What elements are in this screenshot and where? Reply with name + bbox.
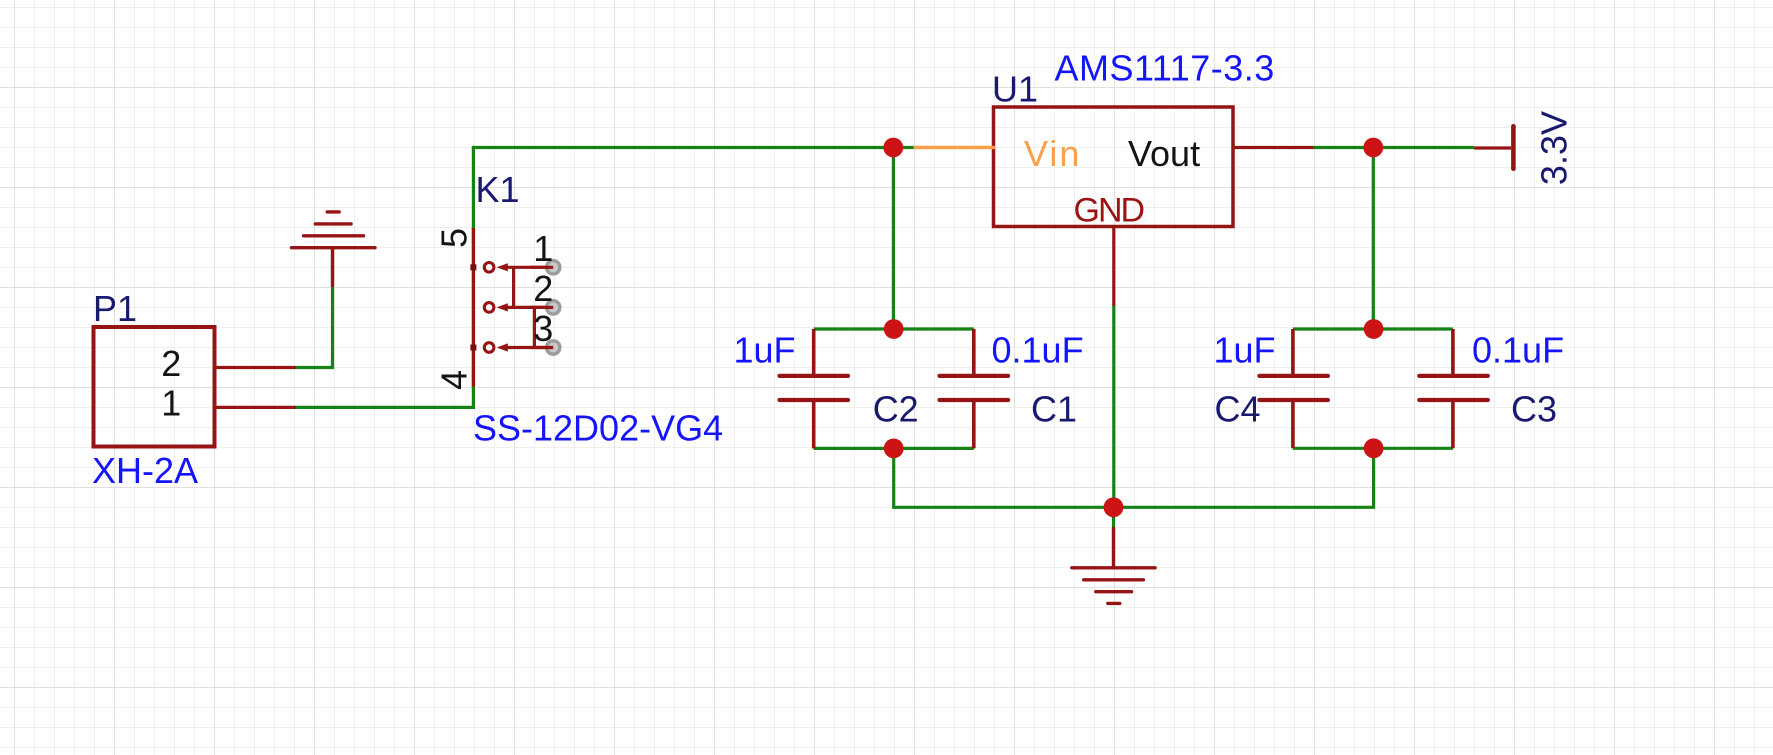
svg-text:0.1uF: 0.1uF (1472, 329, 1564, 370)
junction B (3.3V net) (1363, 138, 1383, 158)
svg-text:C3: C3 (1511, 389, 1557, 430)
svg-text:K1: K1 (476, 169, 520, 210)
capacitor C2 plates (780, 374, 849, 378)
K1 contact row 3 (484, 343, 494, 353)
K1 link segment rows 1-2 (512, 267, 515, 307)
wire: net VIN main horizontal from K1 to U1 junction (473, 146, 916, 149)
regulator U1 body (994, 107, 1234, 227)
svg-text:2: 2 (533, 268, 553, 309)
P1 pin 2 stub (214, 366, 295, 369)
capacitor C2 top lead (812, 329, 816, 375)
U1 pin GND stub (1112, 227, 1115, 305)
connector P1 body (94, 327, 215, 447)
wire: ground rail to C4/C3 bottom (1114, 448, 1374, 507)
K1 pad 1 (530, 261, 560, 274)
U1 pin Vout stub (1233, 146, 1312, 149)
svg-text:1uF: 1uF (1214, 329, 1276, 370)
svg-text:1: 1 (161, 383, 181, 424)
wire: junction B down to C4/C3 top rail (1372, 148, 1375, 330)
K1 contact row 1: arrow line (484, 263, 553, 353)
capacitor C3 top lead (1451, 329, 1455, 375)
capacitor C1 bottom lead (972, 402, 976, 449)
K1 pin4 connection nub (470, 345, 476, 351)
svg-text:5: 5 (434, 228, 475, 248)
svg-text:AMS1117-3.3: AMS1117-3.3 (1055, 48, 1275, 89)
K1 pin5 connection nub (470, 264, 476, 270)
svg-text:1: 1 (533, 228, 553, 269)
wire: K1 top vertical green segment (472, 148, 475, 229)
wire: U1 GND pin to bottom rail green part (1112, 305, 1115, 508)
svg-text:Vin: Vin (1024, 133, 1081, 174)
switch K1 common rail (pins 5-4 vertical) (472, 228, 475, 387)
svg-text:C2: C2 (873, 388, 919, 429)
svg-text:3.3V: 3.3V (1534, 111, 1575, 185)
svg-text:2: 2 (161, 343, 181, 384)
capacitor C3 plates (1419, 374, 1488, 378)
capacitor C1 top lead (972, 329, 976, 375)
wire: C2/C1 bottom to ground rail (894, 448, 1114, 507)
svg-text:3: 3 (533, 308, 553, 349)
K1 pad 2 (530, 301, 560, 314)
svg-text:P1: P1 (93, 288, 137, 329)
svg-text:C1: C1 (1031, 388, 1077, 429)
wire: C4/C3 bottom rail (1293, 447, 1453, 450)
capacitor C2 bottom lead (812, 402, 816, 449)
ground symbol top (earth, flipped) (292, 212, 376, 286)
3.3V terminal bar (1511, 126, 1516, 168)
junction C4/C3 bottom (1364, 438, 1384, 458)
junction C2/C1 top (884, 319, 904, 339)
svg-text:C4: C4 (1215, 389, 1261, 430)
capacitor C4 plates (1259, 374, 1328, 378)
U1 pin Vin (orange) (915, 146, 994, 149)
net label 3.3V wire red segment (1474, 146, 1511, 149)
svg-text:SS-12D02-VG4: SS-12D02-VG4 (473, 408, 723, 449)
svg-text:Vout: Vout (1128, 133, 1200, 174)
K1 pad 3 (530, 341, 560, 354)
wire: K1 bottom green segment down to corner (295, 387, 474, 408)
svg-text:1uF: 1uF (734, 329, 796, 370)
wire: C2/C1 bottom rail (814, 447, 974, 450)
wire: junction A down to C2/C1 top rail (892, 148, 895, 330)
junction C2/C1 bottom (884, 439, 904, 459)
svg-text:GND: GND (1074, 192, 1144, 230)
junction C4/C3 top (1364, 319, 1384, 339)
svg-text:XH-2A: XH-2A (92, 450, 198, 491)
P1 pin 1 stub (214, 406, 295, 409)
svg-text:0.1uF: 0.1uF (992, 329, 1084, 370)
ground symbol bottom (earth) (1072, 528, 1155, 603)
K1 link segment rows 2-3 (533, 307, 536, 347)
svg-text:4: 4 (434, 370, 475, 390)
junction ground rail (1104, 497, 1124, 517)
wire: C4/C3 top rail (1293, 327, 1453, 330)
capacitor C3 bottom lead (1451, 402, 1455, 449)
wire: net 3.3V from Vout pin to terminal (1312, 146, 1474, 149)
K1 contact row 2 (484, 303, 494, 313)
svg-text:U1: U1 (992, 68, 1038, 109)
capacitor C4 bottom lead (1291, 402, 1295, 449)
junction A (VIN net) (883, 138, 903, 158)
wire: C2/C1 top rail (814, 327, 974, 330)
wire: P1 pin2 to ground symbol green (295, 285, 333, 367)
capacitor C1 plates (940, 374, 1009, 378)
capacitor C4 top lead (1291, 329, 1295, 375)
wire: ground stub below junction (1112, 507, 1115, 529)
